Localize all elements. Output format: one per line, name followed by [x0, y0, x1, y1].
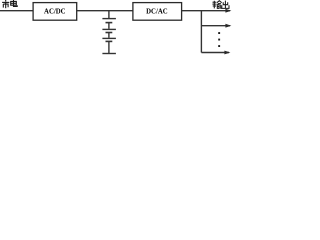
battery (storage cells) [102, 11, 116, 54]
wire: mains input [0, 10, 33, 12]
svg-text:DC/AC: DC/AC [146, 8, 168, 15]
svg-text:AC/DC: AC/DC [44, 8, 66, 15]
arrow: output branch n [224, 51, 230, 55]
wire: inverter output [182, 10, 231, 12]
arrow: output branch 1 [225, 9, 231, 13]
wire: rectifier to inverter DC bus [77, 10, 133, 12]
ellipsis: more outputs [218, 32, 220, 47]
label 市电 (mains) [2, 0, 17, 8]
converter AC/DC [33, 3, 77, 21]
wire: output branch 2 [201, 25, 230, 27]
wire: output branch n [201, 52, 229, 54]
wire: output distribution bus [200, 11, 202, 53]
inverter DC/AC [133, 3, 182, 21]
label 输出 (output) [212, 1, 229, 9]
arrow: output branch 2 [225, 24, 231, 28]
